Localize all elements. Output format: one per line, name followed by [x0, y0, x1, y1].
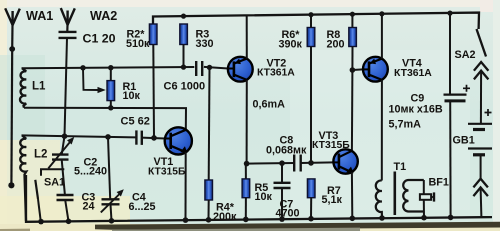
label VT2 — [257, 58, 295, 79]
capacitor C6 — [196, 61, 202, 76]
label R5 — [255, 182, 273, 203]
label C8 — [266, 135, 307, 157]
label R1 — [123, 81, 141, 102]
earphone BF1 — [420, 180, 434, 218]
label R6 — [279, 29, 303, 50]
wire R8 node to VT3 collector — [351, 70, 354, 151]
label C9 — [389, 93, 443, 116]
transistor VT2 — [228, 57, 253, 82]
wire R5 node to C8 — [247, 160, 295, 166]
svg-text:BF1: BF1 — [429, 177, 449, 189]
label SA1 — [44, 177, 65, 189]
label VT3 — [312, 130, 350, 151]
svg-text:200: 200 — [327, 38, 345, 50]
svg-text:5,1к: 5,1к — [322, 194, 343, 206]
svg-text:WA2: WA2 — [90, 9, 117, 23]
label VT4 — [394, 58, 432, 80]
svg-text:390к: 390к — [279, 38, 303, 50]
svg-text:5...240: 5...240 — [74, 166, 107, 178]
label C5 — [121, 116, 150, 128]
svg-text:КТ315Б: КТ315Б — [148, 166, 186, 177]
variable capacitor C2 — [48, 136, 74, 195]
capacitor C3 — [57, 195, 74, 221]
label R7 — [322, 185, 343, 206]
label VT1 — [148, 156, 186, 177]
label GB1 — [453, 135, 475, 147]
label WA2 — [90, 9, 117, 23]
svg-text:0,068мк: 0,068мк — [266, 144, 307, 156]
transformer T1 primary — [376, 180, 382, 219]
svg-text:10к: 10к — [123, 90, 141, 102]
resistor R1 — [107, 68, 115, 108]
svg-text:510к: 510к — [126, 38, 150, 50]
label R2 — [126, 29, 150, 50]
wire L1 bottom to VT1 collector — [24, 105, 186, 130]
label R3 — [196, 29, 214, 50]
transistor VT4 — [363, 57, 388, 82]
svg-text:330: 330 — [196, 38, 214, 50]
svg-text:4700: 4700 — [276, 208, 300, 220]
capacitor C1 — [59, 32, 77, 38]
label WA1 — [26, 9, 53, 23]
transformer T1 core — [393, 172, 396, 216]
wire VT4 emitter to top rail — [381, 14, 383, 59]
svg-text:5,7mA: 5,7mA — [389, 119, 422, 131]
label C7 — [276, 199, 300, 220]
svg-text:КТ361А: КТ361А — [394, 68, 432, 79]
svg-text:24: 24 — [83, 201, 95, 213]
svg-text:C1 20: C1 20 — [83, 32, 116, 46]
battery GB1 — [468, 109, 492, 179]
wire VT2 collector to R5/C8 node — [244, 80, 250, 167]
resistor R4 — [205, 67, 213, 219]
wire C1 to L2 tank — [62, 38, 68, 139]
capacitor C8 — [294, 155, 301, 172]
resistor R7 — [307, 179, 315, 219]
wire WA1 lead — [8, 25, 15, 188]
svg-text:6...25: 6...25 — [129, 201, 156, 213]
transistor VT1 — [165, 127, 192, 154]
svg-text:КТ361А: КТ361А — [257, 68, 295, 79]
transistor VT3 — [333, 149, 357, 173]
label C6 — [164, 81, 206, 93]
label C2 — [74, 157, 107, 178]
svg-text:GB1: GB1 — [453, 135, 475, 147]
wire VT1 emitter to bottom rail — [185, 152, 187, 220]
wire C5 to VT1 base — [142, 135, 165, 141]
antenna WA2 — [61, 8, 75, 32]
connector arrow GB1 to rail — [473, 179, 488, 218]
variable capacitor C4 — [101, 137, 124, 221]
wire bottom rail — [26, 175, 492, 224]
label C4 — [129, 191, 156, 213]
label VT2 current — [253, 99, 286, 111]
wire L2 tank to C5 — [22, 134, 137, 140]
capacitor C9 — [444, 13, 471, 217]
svg-text:C6 1000: C6 1000 — [164, 81, 206, 93]
wire tank top (L1 to C6) — [22, 64, 195, 70]
svg-text:SA1: SA1 — [44, 177, 65, 189]
resistor R5 — [242, 164, 250, 220]
label L2 — [34, 149, 47, 161]
svg-text:0,6mA: 0,6mA — [253, 99, 286, 111]
label C1 value — [83, 32, 116, 46]
svg-text:L1: L1 — [32, 81, 46, 93]
capacitor C5 — [136, 130, 141, 145]
wire VT4 collector to T1 — [381, 80, 383, 181]
wire VT2 emitter to top rail — [246, 15, 248, 58]
svg-text:L2: L2 — [34, 149, 47, 161]
switch SA1 — [35, 169, 64, 221]
label R8 — [327, 29, 345, 50]
label T1 — [394, 161, 407, 173]
svg-text:T1: T1 — [394, 161, 407, 173]
svg-text:SA2: SA2 — [455, 49, 476, 61]
label VT4 current — [389, 119, 422, 131]
wire C6 to VT2 base — [204, 65, 228, 70]
potentiometer R1 arrow — [83, 68, 106, 93]
wire C8 to VT3 base — [301, 160, 334, 166]
wire top rail — [153, 11, 479, 30]
svg-text:КТ315Б: КТ315Б — [312, 140, 350, 151]
inductor L1 — [20, 68, 26, 108]
resistor R6 — [307, 15, 315, 163]
svg-text:WA1: WA1 — [26, 9, 53, 23]
label C3 — [82, 192, 96, 213]
svg-text:C5 62: C5 62 — [121, 116, 150, 128]
resistor R8 — [349, 14, 357, 73]
label L1 — [32, 81, 46, 93]
svg-text:10к: 10к — [255, 191, 273, 203]
resistor R2 — [149, 24, 157, 45]
label BF1 — [429, 177, 449, 189]
resistor R3 — [180, 24, 188, 67]
inductor L2 — [20, 135, 26, 221]
svg-text:10мк x16В: 10мк x16В — [389, 104, 443, 116]
transformer T1 secondary — [403, 180, 424, 212]
switch SA2 — [474, 29, 489, 124]
wire R2 to VT1 base node — [152, 45, 155, 138]
label SA2 — [455, 49, 476, 61]
wire VT3 emitter to bottom rail — [351, 172, 353, 218]
capacitor C7 — [274, 163, 291, 219]
wire R8 node to VT4 base — [352, 68, 363, 71]
label R4 — [213, 202, 237, 224]
antenna WA1 — [5, 8, 20, 25]
svg-text:200к: 200к — [213, 211, 237, 223]
